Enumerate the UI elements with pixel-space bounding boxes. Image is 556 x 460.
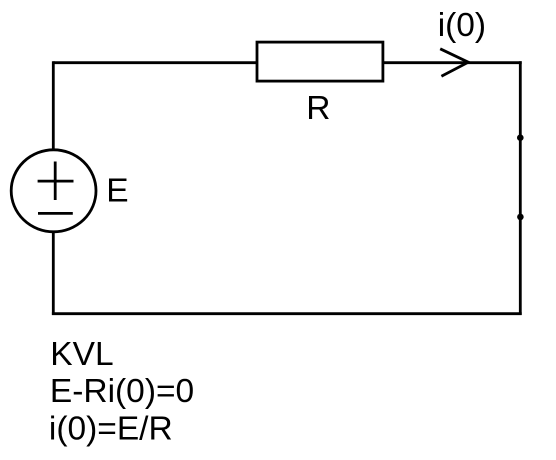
node dot lower [517, 214, 524, 221]
svg-text:i(0)=E/R: i(0)=E/R [49, 410, 173, 447]
svg-text:R: R [306, 90, 330, 127]
voltage source plus sign [54, 162, 57, 201]
node dot upper [517, 134, 524, 141]
voltage source minus sign [38, 212, 73, 215]
svg-text:i(0): i(0) [438, 7, 486, 44]
wire: top-right horizontal segment [383, 61, 522, 64]
svg-text:E-Ri(0)=0: E-Ri(0)=0 [50, 373, 194, 410]
voltage source E circle [11, 150, 96, 232]
resistor R1 [257, 42, 383, 81]
wire: left vertical lower stub [52, 233, 55, 315]
wire: right vertical segment [519, 61, 522, 315]
wire: bottom horizontal segment [52, 312, 522, 315]
svg-text:E: E [106, 172, 128, 209]
wire: top-left horizontal segment [53, 61, 257, 64]
svg-text:KVL: KVL [50, 336, 113, 373]
current arrow i(0) [440, 49, 468, 77]
wire: left vertical upper stub [52, 61, 55, 149]
